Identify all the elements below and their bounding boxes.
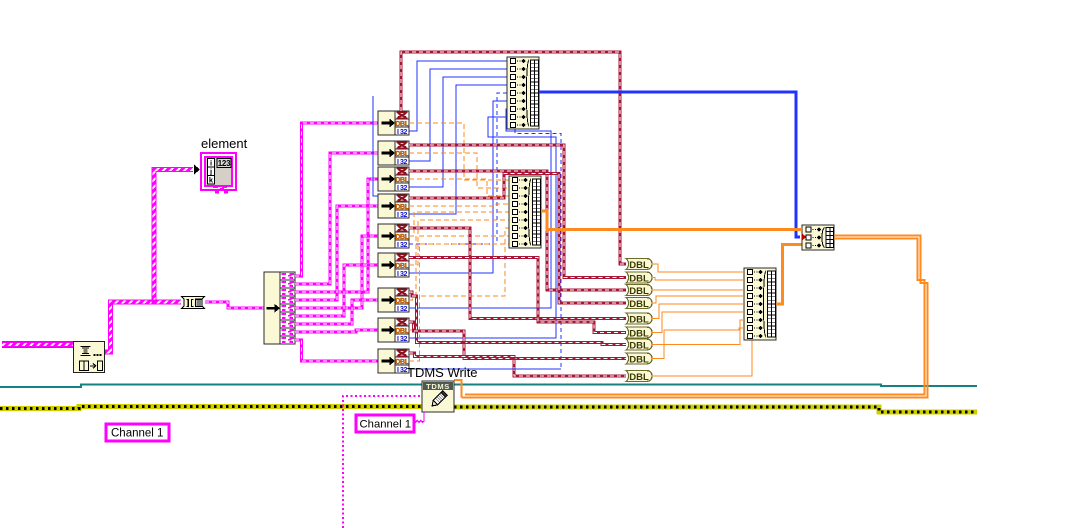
- DBL wire bullet 9 to build array 3: [652, 341, 752, 377]
- unbundle node 2: [378, 141, 410, 166]
- to-double conversion 9: [626, 371, 652, 383]
- DBL wire bullet 1 to build array 3: [652, 264, 744, 272]
- unbundle function (9 outputs): [264, 272, 295, 344]
- cluster wire to unbundle 3: [295, 179, 378, 292]
- I32 wire node 8 to build array: [409, 117, 556, 338]
- DBL array wire (build array 2 out): [541, 211, 802, 230]
- Channel 1 constant (wired): [356, 415, 414, 432]
- to-double conversion 8: [626, 353, 652, 365]
- DBL wire node 9 to build array 2: [409, 244, 509, 361]
- unbundle node 1: [378, 111, 410, 136]
- DBL wire node 7 to build array 2: [409, 228, 509, 300]
- svg-text:element: element: [201, 136, 248, 151]
- array wire branch up to element indicator: [154, 170, 193, 303]
- 2D DBL array wire (double orange): [454, 236, 928, 398]
- top input wire to build array 4: [796, 228, 802, 231]
- string wire (group name, dotted): [343, 396, 422, 528]
- I32 wire node 7 to build array: [409, 109, 551, 308]
- unbundle node 5: [378, 224, 410, 249]
- svg-text:DBL: DBL: [629, 286, 649, 297]
- cluster wire to unbundle 8: [295, 330, 378, 332]
- DBL wire bullet 5 to build array 3: [652, 304, 744, 319]
- unbundle node 3: [378, 167, 410, 192]
- coercion dot: [802, 234, 807, 241]
- unbundle node 8: [378, 318, 410, 343]
- DBL wire bullet 6 to build array 3: [652, 312, 744, 333]
- stray I32 wire: [373, 96, 378, 196]
- svg-text:I 32: I 32: [397, 129, 408, 136]
- build array 1 (I32): [507, 57, 539, 129]
- teal TDMS file refnum wire: [0, 385, 977, 388]
- I32 wire node 9 to build array: [409, 125, 561, 369]
- timestamp wire node 3: [409, 171, 626, 290]
- DBL wire node 6 to build array 2: [409, 220, 509, 265]
- timestamp wire node 9: [409, 353, 626, 376]
- svg-text:TDMS Write: TDMS Write: [407, 365, 478, 380]
- unbundle node 4: [378, 194, 410, 219]
- to-double conversion 5: [626, 313, 652, 325]
- cluster wire to unbundle 2: [295, 153, 378, 284]
- cluster wire to unbundle 9: [295, 340, 378, 361]
- svg-text:TDMS: TDMS: [426, 382, 450, 391]
- svg-text:I 32: I 32: [397, 185, 408, 192]
- DBL wire node 5 to build array 2: [409, 212, 509, 236]
- to-double conversion 6: [626, 327, 652, 339]
- I32 wire node 5 to build array: [409, 93, 507, 244]
- DBL wire node 3 to build array 2: [409, 179, 509, 196]
- to-double conversion 1: [626, 259, 652, 271]
- I32 wire node 4 to build array: [409, 85, 507, 214]
- timestamp wire node 2: [409, 145, 626, 278]
- I32 long wire under TDMS label: [409, 368, 561, 370]
- to-double conversion 7: [626, 339, 652, 351]
- string wire channel name (squiggle): [414, 412, 424, 422]
- svg-text:DBL: DBL: [395, 204, 409, 211]
- queue flush function: [74, 342, 105, 373]
- svg-text:DBL: DBL: [395, 121, 409, 128]
- cluster wire to unbundle 6: [295, 265, 378, 316]
- Channel 1 constant (left): [106, 424, 169, 441]
- svg-text:DBL: DBL: [395, 328, 409, 335]
- svg-text:DBL: DBL: [629, 328, 649, 339]
- unbundle node 7: [378, 288, 410, 313]
- DBL wire node 8 to build array 2: [409, 236, 509, 330]
- DBL wire bullet 3 to build array 3: [652, 289, 744, 291]
- cluster wire to unbundle 5: [295, 236, 378, 308]
- timestamp wire node 8: [409, 322, 626, 359]
- svg-text:I 32: I 32: [397, 306, 408, 313]
- svg-text:DBL: DBL: [629, 340, 649, 351]
- to-double conversion 3: [626, 285, 652, 297]
- svg-text:DBL: DBL: [629, 354, 649, 365]
- I32 wire node 3 to build array: [409, 77, 507, 187]
- array of clusters wire from queue: [105, 302, 181, 352]
- to-double conversion 4: [626, 298, 652, 310]
- timestamp wire node 4: [409, 174, 626, 304]
- svg-text:Channel 1: Channel 1: [360, 419, 412, 431]
- timestamp wire node 5: [409, 228, 626, 319]
- cluster wire: index array to unbundle: [205, 302, 264, 308]
- svg-text:DBL: DBL: [629, 372, 649, 383]
- error cluster black dashes: [0, 407, 977, 413]
- I32 wire node 1 to build array: [409, 61, 507, 131]
- build array 3 (DBL): [744, 268, 776, 340]
- unbundle node 9: [378, 349, 410, 374]
- cluster wire to unbundle 7: [295, 300, 378, 324]
- error cluster wire (yellow/black): [0, 407, 977, 413]
- timestamp wire node 6: [409, 258, 626, 333]
- svg-text:123: 123: [218, 159, 231, 168]
- svg-text:DBL: DBL: [395, 234, 409, 241]
- DBL wire node 2 to build array 2: [409, 153, 509, 188]
- DBL wire bullet 4 to build array 3: [652, 296, 744, 303]
- svg-text:I 32: I 32: [397, 159, 408, 166]
- DBL wire node 1 to build array 2: [409, 123, 509, 180]
- I32 wire node 6 to build array: [409, 101, 507, 273]
- svg-text:DBL: DBL: [629, 314, 649, 325]
- element array indicator: [194, 136, 248, 194]
- svg-text:DBL: DBL: [395, 298, 409, 305]
- index array function: [182, 297, 205, 309]
- I32 array wire (build array 1 out): [539, 92, 800, 237]
- to-double conversion 2: [626, 272, 652, 284]
- svg-text:DBL: DBL: [395, 151, 409, 158]
- wire junction: [152, 300, 157, 305]
- svg-text:DBL: DBL: [629, 273, 649, 284]
- cluster wire to unbundle 4: [295, 206, 378, 300]
- svg-text:DBL: DBL: [629, 260, 649, 271]
- timestamp wire node 1 (top rail): [401, 52, 626, 264]
- build array 4 (2D): [802, 225, 834, 250]
- svg-text:DBL: DBL: [395, 263, 409, 270]
- build array 2 (DBL): [509, 176, 541, 248]
- svg-text:Channel 1: Channel 1: [111, 428, 163, 440]
- svg-text:I 32: I 32: [397, 336, 408, 343]
- DBL wire node 4 to build array 2: [409, 204, 509, 206]
- TDMS Write function: [422, 381, 454, 412]
- svg-text:I 32: I 32: [397, 212, 408, 219]
- timestamp wire node 7: [409, 292, 626, 345]
- svg-text:DBL: DBL: [395, 177, 409, 184]
- DBL wire bullet 8 to build array 3: [652, 328, 744, 359]
- I32 wire node 2 to build array: [409, 69, 507, 161]
- cluster wire to unbundle 1: [295, 123, 378, 276]
- queue refnum wire (magenta/teal hatched): [2, 341, 73, 348]
- DBL wire bullet 7 to build array 3: [652, 320, 744, 345]
- unbundle node 6: [378, 253, 410, 278]
- svg-text:I 32: I 32: [397, 271, 408, 278]
- svg-text:I 32: I 32: [397, 242, 408, 249]
- DBL wire bullet 2 to build array 3: [652, 278, 744, 281]
- svg-text:I 32: I 32: [397, 367, 408, 374]
- DBL array wire (build array 3 out): [776, 245, 802, 305]
- svg-text:DBL: DBL: [629, 299, 649, 310]
